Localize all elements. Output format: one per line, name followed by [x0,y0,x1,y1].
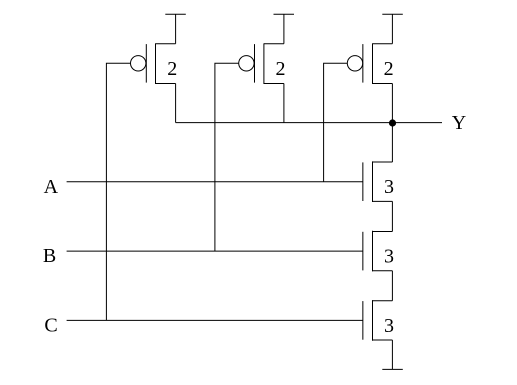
VDD supply bar 2 [274,13,295,15]
wire: input A rail [67,181,363,183]
svg-text:B: B [43,245,56,267]
NMOS M6 [363,300,393,341]
VDD supply bar 1 [165,13,186,15]
wire: VDD3 to M3 source [391,14,393,44]
svg-text:Y: Y [452,112,466,134]
junction dot at node Y [389,119,396,126]
wire: M2 drain to node Y [283,84,285,123]
svg-text:3: 3 [384,176,394,198]
ground bar [382,368,403,370]
wire: M3 gate to input A [324,63,348,181]
NMOS M4 [363,161,393,202]
wire: M1 drain to node Y [175,84,177,123]
svg-text:A: A [44,176,59,198]
svg-text:3: 3 [384,246,394,268]
wire: output Y horizontal [176,122,442,124]
wire: input B rail [67,250,363,252]
wire: M4 source to M5 drain [391,201,393,231]
NMOS M5 [363,231,393,272]
svg-text:C: C [44,314,57,336]
PMOS M1 [131,43,176,84]
VDD supply bar 3 [382,13,403,15]
svg-text:2: 2 [167,58,177,80]
wire: node Y to M4 drain [391,123,393,162]
wire: input C rail [67,319,363,321]
wire: M3 drain to node Y [391,84,393,123]
svg-text:2: 2 [276,58,286,80]
wire: M6 source to ground [391,340,393,369]
wire: VDD1 to M1 source [175,14,177,44]
wire: M2 gate to input B [215,63,239,251]
wire: VDD2 to M2 source [283,14,285,44]
svg-text:2: 2 [384,58,394,80]
PMOS M2 [239,43,284,84]
svg-text:3: 3 [384,315,394,337]
wire: M1 gate to input C [106,63,130,320]
PMOS M3 [347,43,392,84]
wire: M5 source to M6 drain [391,271,393,301]
